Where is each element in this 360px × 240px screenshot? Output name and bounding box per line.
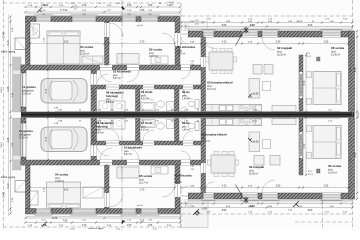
svg-text:5.70: 5.70 — [46, 88, 48, 93]
room label 10 kozlekedo bottom — [124, 146, 142, 157]
svg-text:térburkolt felület: térburkolt felület — [88, 227, 104, 230]
svg-text:8.55: 8.55 — [222, 25, 227, 27]
svg-text:15.45: 15.45 — [4, 191, 6, 197]
svg-text:13,71 m²: 13,71 m² — [201, 140, 210, 143]
door arc garage top — [97, 74, 109, 86]
door arc corridor room 04 top — [100, 70, 112, 82]
svg-text:87,5 212,5: 87,5 212,5 — [93, 91, 95, 100]
svg-text:vinyl: vinyl — [201, 138, 206, 140]
stacked window annotation entry top — [195, 20, 200, 25]
terrace door arc kitchen bottom — [203, 182, 214, 193]
toilet wc 09 bottom unit — [181, 119, 199, 131]
desk room 05 bottom unit — [151, 166, 168, 174]
svg-text:1.65: 1.65 — [148, 5, 153, 7]
svg-text:vinyl: vinyl — [277, 51, 282, 53]
svg-text:2,64 m²: 2,64 m² — [96, 132, 104, 135]
desk room 05 top unit — [151, 56, 168, 64]
svg-text:212,5: 212,5 — [306, 56, 312, 58]
entry porch top unit — [182, 22, 208, 32]
room label 11 garazs top — [22, 85, 36, 96]
room label 08 haztartasi top — [106, 91, 124, 105]
driveway apron left of garages — [13, 57, 22, 170]
utility corridor wall unit B (bottom) — [91, 141, 205, 145]
svg-text:13,20 m²: 13,20 m² — [80, 53, 89, 56]
svg-text:3.70: 3.70 — [140, 190, 145, 192]
svg-text:03 konyha-étkező: 03 konyha-étkező — [201, 133, 227, 137]
additional window dim texts bottom row2 — [42, 219, 153, 221]
svg-text:8.60: 8.60 — [308, 25, 313, 27]
vertical dimension garage bottom — [46, 117, 49, 162]
bed room 06 top unit — [307, 72, 342, 105]
room label 01 eloszoba top — [178, 45, 196, 56]
svg-text:2,87 m²: 2,87 m² — [174, 181, 182, 184]
svg-text:+2,70: +2,70 — [69, 3, 75, 5]
vertical dimension room 06 top — [304, 54, 307, 113]
washing machines utility 08 top unit — [99, 101, 125, 112]
room label 10 kozlekedo top — [113, 70, 131, 81]
svg-text:helyiség: helyiség — [96, 124, 108, 128]
svg-text:vinyl: vinyl — [55, 178, 60, 180]
svg-text:150: 150 — [107, 10, 110, 12]
additional window dim texts top row2 — [42, 10, 153, 12]
entry door arc top — [181, 37, 188, 44]
exterior right wall unit A (top) — [349, 31, 355, 112]
eaves gutter lines top right section — [188, 28, 353, 30]
svg-text:2,64 m²: 2,64 m² — [106, 101, 114, 104]
svg-text:3.10: 3.10 — [304, 80, 306, 85]
svg-text:±0.00: ±0.00 — [253, 141, 260, 144]
door arc eloszoba corridor top — [181, 70, 190, 79]
utility corridor wall unit A (top) — [91, 85, 205, 89]
wall nappali room 06 with pocket door unit A (top) — [299, 55, 303, 112]
svg-text:7.90: 7.90 — [63, 10, 68, 12]
car in garage bottom unit — [41, 127, 87, 152]
svg-text:4,20 m²: 4,20 m² — [141, 129, 149, 132]
svg-text:05 szoba: 05 szoba — [149, 48, 162, 52]
bed room 06 bottom unit — [307, 126, 342, 159]
door size annotation eloszoba top — [191, 61, 195, 66]
svg-text:01 előszoba: 01 előszoba — [178, 45, 196, 49]
dimension chain top edge windows left section — [24, 5, 181, 8]
svg-text:13,17 m²: 13,17 m² — [139, 182, 148, 185]
svg-text:3.10: 3.10 — [304, 143, 306, 148]
svg-text:3.70: 3.70 — [140, 42, 145, 44]
door arc corridor bath 07 top — [143, 89, 154, 100]
window nappali a unit B (bottom) — [241, 193, 260, 201]
svg-text:vinyl: vinyl — [178, 50, 183, 52]
svg-text:03 konyha-étkező: 03 konyha-étkező — [207, 81, 233, 85]
entry door arc bottom — [181, 186, 188, 193]
terrace door arc nappali top — [262, 37, 275, 50]
extra bottom edge annotation row left — [69, 228, 157, 230]
entry door opening unit A (top) — [181, 31, 188, 37]
wall bathroom 07-09 unit A (top) — [175, 89, 180, 112]
corner fixture room 04 bottom unit — [28, 191, 38, 205]
property dashed line right edge — [352, 0, 354, 230]
interior wall between rooms 04 and 05 unit B (bottom) — [105, 165, 110, 209]
roof overhang dashed line top left section — [3, 2, 181, 4]
wall eloszoba kitchen unit B (bottom) — [201, 118, 206, 193]
svg-text:90: 90 — [296, 21, 298, 23]
roof overhang dashed line bottom right section — [181, 213, 353, 215]
window room 05 b unit B (bottom) — [140, 209, 160, 216]
bed room 05 top unit — [117, 54, 139, 65]
desk room 04 bottom unit — [83, 187, 103, 198]
entry door opening unit B (bottom) — [181, 193, 188, 199]
outdoor ac unit top left — [1, 38, 26, 54]
door arc eloszoba room 05 bottom — [162, 184, 175, 197]
marker diamond bottom terrace — [193, 211, 199, 215]
svg-text:1.65: 1.65 — [148, 225, 153, 227]
svg-text:212,5: 212,5 — [308, 174, 314, 176]
svg-text:2.90: 2.90 — [276, 42, 281, 44]
svg-text:helyiség: helyiség — [106, 94, 118, 98]
north arrow bottom right — [293, 201, 299, 207]
room label 09 wc top — [182, 90, 190, 101]
vertical dimension garage top — [46, 69, 49, 113]
room label 05 szoba bottom — [139, 174, 152, 185]
svg-text:1.50: 1.50 — [127, 5, 132, 7]
sofa and armchairs nappali top unit — [249, 65, 273, 99]
room label 06 szoba bottom — [328, 164, 341, 175]
window kitchen terrace door unit A (top) — [202, 29, 216, 37]
vertical dimension room 06 bottom — [304, 117, 307, 177]
dimension chain top edge right section lower — [180, 25, 354, 28]
svg-text:vinyl: vinyl — [328, 169, 333, 171]
level mark -0.02 entry top — [236, 24, 256, 46]
room label 07 furdo top — [141, 90, 153, 101]
bathtub and basin bathroom 07 top unit — [141, 101, 174, 111]
door arc eloszoba room 05 top — [162, 33, 175, 46]
window room 05 b unit A (top) — [140, 15, 160, 22]
exterior garage left wall unit B (bottom) — [21, 118, 26, 165]
svg-text:-0.02: -0.02 — [249, 205, 255, 208]
tiny dimension row below party wall — [55, 118, 340, 122]
room label 02 nappali bottom — [249, 165, 264, 176]
svg-text:3.55: 3.55 — [324, 42, 329, 44]
dimension chain bottom edge windows left section — [24, 221, 181, 227]
svg-text:10,10: 10,10 — [1, 87, 3, 93]
wall bathroom 07-09 unit B (bottom) — [175, 118, 180, 141]
svg-text:1,40 m²: 1,40 m² — [182, 129, 190, 132]
svg-text:gres,: gres, — [96, 129, 101, 132]
room label 08 haztartasi bottom — [96, 121, 114, 135]
svg-text:3.55: 3.55 — [354, 152, 357, 157]
toilet wc 09 top unit — [181, 100, 199, 112]
svg-text:vinyl: vinyl — [207, 86, 212, 88]
pocket door annotation top — [306, 53, 320, 61]
sofa and armchairs nappali bottom unit — [249, 132, 280, 165]
dining table bottom unit — [207, 151, 239, 177]
door size annotation eloszoba bottom — [191, 166, 195, 171]
svg-text:10 közlekedő: 10 közlekedő — [124, 146, 142, 150]
svg-text:3.55: 3.55 — [324, 186, 329, 188]
eaves gutter lines bottom left section — [26, 215, 181, 217]
svg-text:5.70: 5.70 — [46, 136, 48, 141]
tv bench nappali bottom unit — [272, 119, 296, 125]
svg-text:vinyl: vinyl — [249, 170, 254, 172]
wall nappali room 06 with pocket door unit B (bottom) — [299, 118, 303, 175]
svg-text:7.05: 7.05 — [140, 10, 145, 12]
exterior garage left wall unit A (top) — [21, 65, 26, 112]
kitchen counter bottom unit — [206, 119, 262, 126]
svg-text:+2,70: +2,70 — [69, 228, 75, 230]
room label 03 konyha-etkezo top — [207, 81, 233, 92]
room label 02 nappali top — [277, 46, 292, 57]
roof overhang dashed step at entry top — [180, 3, 182, 16]
window room 06 unit A (top) — [321, 29, 343, 37]
exterior top wall left section unit B (bottom) — [26, 209, 181, 214]
svg-text:-0.10: -0.10 — [43, 4, 49, 7]
svg-text:vinyl: vinyl — [139, 179, 144, 181]
exterior left wall rooms unit A (top) — [26, 17, 31, 66]
stacked window annotation 2.0 top left — [72, 5, 80, 11]
interior dimension chain rooms top — [29, 42, 176, 45]
extra top edge annotation row left — [69, 2, 174, 7]
party wall between units — [21, 112, 355, 118]
exterior top wall left section unit A (top) — [26, 17, 181, 22]
svg-text:06 szoba: 06 szoba — [328, 164, 341, 168]
svg-text:01 előszoba: 01 előszoba — [174, 174, 192, 178]
wall eloszoba kitchen unit A (top) — [201, 37, 206, 112]
corner fixture room 04 top unit — [30, 24, 40, 38]
window kitchen terrace door unit B (bottom) — [202, 193, 216, 201]
interior wall rooms bottom band unit A (top) — [21, 65, 205, 70]
level mark -0.02 entry bottom — [194, 208, 207, 215]
door arc corridor room 05 top — [127, 70, 139, 82]
svg-text:7.90: 7.90 — [63, 220, 68, 222]
svg-text:05 szoba: 05 szoba — [139, 174, 152, 178]
window room 04 b unit B (bottom) — [71, 209, 98, 216]
dimension chain bottom edge overall left section — [24, 217, 181, 223]
svg-text:4.10: 4.10 — [222, 186, 227, 188]
interior dimension chain right section top — [180, 42, 350, 45]
door arc corridor room 05 bottom — [127, 148, 139, 160]
svg-text:gres,: gres, — [106, 98, 111, 101]
terrace door arc kitchen top — [203, 37, 214, 48]
washing machines utility 08 bottom unit — [99, 119, 125, 130]
svg-text:16,35 m²: 16,35 m² — [249, 173, 258, 176]
terrace door nappali unit A (top) — [261, 29, 280, 37]
car in garage top unit — [41, 79, 87, 104]
room label 11 garazs bottom — [19, 129, 33, 140]
terrace bottom unit — [181, 199, 209, 228]
dimension chain top edge overall left section — [24, 10, 181, 13]
wall utility 08-07 unit A (top) — [136, 89, 141, 112]
level mark -0.02 kitchen door bottom — [236, 185, 256, 208]
kitchen counter top unit — [206, 105, 262, 112]
svg-text:02 nappali: 02 nappali — [249, 165, 264, 169]
svg-text:7.05: 7.05 — [140, 220, 145, 222]
dimension chain bottom edge right section upper — [180, 202, 354, 207]
door arc eloszoba corridor bottom — [181, 151, 190, 160]
svg-text:2.40: 2.40 — [82, 5, 87, 7]
svg-text:pm 90: pm 90 — [137, 25, 144, 27]
svg-text:-0.70: -0.70 — [52, 217, 58, 220]
svg-text:3.55: 3.55 — [354, 67, 357, 72]
svg-text:1.50: 1.50 — [127, 225, 132, 227]
interior dimension chain right section bottom — [180, 186, 350, 189]
roof overhang dashed line bottom left section — [3, 226, 181, 228]
roof overhang dashed step at entry bottom — [180, 214, 182, 227]
level mark kitchen bottom — [248, 138, 259, 144]
svg-text:13,71 m²: 13,71 m² — [207, 88, 216, 91]
door arc room 04-05 bottom — [109, 193, 123, 207]
svg-text:mélygarázs: mélygarázs — [19, 133, 32, 136]
svg-text:16,35 m²: 16,35 m² — [277, 54, 286, 57]
door arc corridor wc top — [183, 89, 193, 99]
window room 04 a unit B (bottom) — [35, 209, 53, 216]
door arc room 04-05 top — [109, 23, 123, 37]
svg-text:1,40 m²: 1,40 m² — [182, 98, 190, 101]
outdoor ac unit bottom left — [1, 176, 26, 192]
svg-text:vinyl: vinyl — [331, 51, 336, 53]
svg-text:mélygarázs: mélygarázs — [22, 89, 35, 92]
exterior right wall unit B (bottom) — [349, 118, 355, 199]
svg-text:07 fürdő: 07 fürdő — [141, 90, 153, 94]
double bed room 04 bottom unit — [47, 182, 81, 209]
svg-text:4.10: 4.10 — [222, 42, 227, 44]
garage right wall unit B (bottom) — [91, 118, 97, 160]
window room 05 a unit A (top) — [121, 15, 138, 22]
bed room 05 bottom unit — [117, 167, 139, 178]
svg-text:vinyl: vinyl — [80, 50, 85, 52]
svg-text:4,20 m²: 4,20 m² — [141, 98, 149, 101]
svg-text:vinyl: vinyl — [174, 179, 179, 181]
window size labels top left section — [42, 14, 153, 16]
vertical dimension chain far left — [4, 31, 6, 197]
tv bench nappali top unit — [272, 106, 296, 112]
svg-text:87,5 212,5: 87,5 212,5 — [93, 132, 95, 141]
svg-text:5.00: 5.00 — [64, 190, 69, 192]
svg-text:8.60: 8.60 — [308, 210, 313, 212]
svg-text:13,42 m²: 13,42 m² — [328, 172, 337, 175]
svg-text:11 garázs: 11 garázs — [19, 129, 33, 133]
exterior top wall right section unit A (top) — [188, 31, 353, 37]
svg-text:pm 90: pm 90 — [137, 205, 144, 207]
interior dimension chain rooms bottom — [29, 186, 176, 191]
terrace door nappali unit B (bottom) — [261, 193, 280, 201]
svg-text:2,87 m²: 2,87 m² — [178, 53, 186, 56]
garage right wall unit A (top) — [91, 70, 97, 112]
svg-text:13,20 m²: 13,20 m² — [55, 180, 64, 183]
property dashed line left edge — [3, 0, 5, 230]
svg-text:15.45: 15.45 — [4, 31, 6, 37]
level mark -0.70 bottom left — [42, 217, 58, 227]
room label 01 eloszoba bottom — [174, 174, 192, 185]
eaves gutter lines bottom right section — [188, 200, 353, 202]
vertical dimension chain left edge — [7, 15, 12, 214]
svg-text:02 nappali: 02 nappali — [277, 46, 292, 50]
extra top edge annotation row right section — [207, 18, 348, 23]
svg-text:-0.02: -0.02 — [249, 24, 255, 27]
room label 04 szoba top — [80, 45, 93, 56]
section line A-A vertical — [122, 0, 126, 230]
svg-text:8.55: 8.55 — [222, 210, 227, 212]
svg-text:45: 45 — [312, 21, 314, 23]
door arc corridor utility 08 bottom — [106, 128, 119, 141]
terrace dashed edge bottom right — [295, 199, 353, 230]
tiny dimension row above party wall — [55, 110, 340, 112]
double bed room 04 top unit — [47, 31, 80, 64]
svg-text:2.90: 2.90 — [276, 186, 281, 188]
window size labels under sills top left — [60, 10, 111, 12]
exterior top wall right section unit B (bottom) — [188, 193, 353, 199]
room label 03 konyha-etkezo bottom — [201, 133, 227, 144]
room label 09 wc bottom — [182, 121, 190, 132]
door arc corridor wc bottom — [183, 131, 193, 141]
dimension chain bottom edge right section lower — [180, 206, 354, 211]
room label 04 szoba bottom — [55, 173, 68, 184]
door arc corridor utility 08 top — [106, 89, 119, 102]
svg-text:06 szoba: 06 szoba — [331, 46, 344, 50]
svg-text:13,55 m²: 13,55 m² — [19, 137, 28, 140]
vertical dimension chain right edge — [354, 30, 358, 200]
svg-text:10,10: 10,10 — [1, 142, 3, 148]
terrace door arc nappali bottom — [262, 180, 275, 193]
window room 04 a unit A (top) — [35, 15, 53, 22]
door arc garage bottom — [97, 144, 109, 156]
window room 05 a unit B (bottom) — [121, 209, 138, 216]
exterior left wall rooms unit B (bottom) — [26, 165, 31, 214]
room label 07 furdo bottom — [141, 121, 153, 132]
svg-text:04 szoba: 04 szoba — [80, 45, 93, 49]
window room 06 unit B (bottom) — [321, 193, 343, 201]
svg-text:vinyl: vinyl — [149, 53, 154, 55]
svg-text:11 garázs: 11 garázs — [22, 85, 36, 89]
svg-text:90: 90 — [60, 10, 62, 12]
svg-text:10 közlekedő: 10 közlekedő — [113, 70, 131, 74]
svg-text:09 wc: 09 wc — [182, 90, 190, 94]
dimension chain top edge right section upper — [180, 21, 354, 24]
wardrobe room 04 top unit — [82, 56, 103, 64]
svg-text:13,55 m²: 13,55 m² — [22, 93, 31, 96]
svg-text:620,5: 620,5 — [168, 2, 174, 4]
level mark kitchen top — [248, 93, 259, 98]
interior wall room 05 eloszoba unit B (bottom) — [175, 165, 180, 214]
svg-text:13,17 m²: 13,17 m² — [149, 55, 158, 58]
room label 06 szoba top — [331, 46, 344, 57]
window nappali a unit A (top) — [241, 29, 260, 37]
left edge vertical texts extra — [1, 27, 14, 202]
interior wall rooms bottom band unit B (bottom) — [21, 160, 205, 165]
extra bottom edge annotation row right section — [207, 210, 348, 214]
svg-text:5.00: 5.00 — [64, 42, 69, 44]
interior wall room 05 eloszoba unit A (top) — [175, 17, 180, 66]
svg-text:13,42 m²: 13,42 m² — [331, 54, 340, 57]
svg-text:5,07 m²: 5,07 m² — [113, 77, 121, 80]
wall utility 08-07 unit B (bottom) — [136, 118, 141, 141]
room label 05 szoba top — [149, 48, 162, 59]
roof overhang dashed line top right section — [181, 15, 353, 17]
svg-text:5,07 m²: 5,07 m² — [124, 153, 132, 156]
pocket door annotation bottom — [308, 169, 320, 176]
eaves gutter lines top left section — [26, 13, 181, 15]
right edge vertical texts extra — [350, 67, 360, 162]
window room 04 b unit A (top) — [71, 15, 98, 22]
left boundary double line — [7, 14, 9, 216]
svg-text:±0.00: ±0.00 — [253, 93, 260, 96]
bathtub and basin bathroom 07 bottom unit — [141, 120, 174, 130]
dining table top unit — [205, 48, 237, 74]
svg-text:04 szoba: 04 szoba — [55, 173, 68, 177]
door arc corridor bath 07 bottom — [143, 130, 154, 141]
svg-text:2.40: 2.40 — [82, 225, 87, 227]
door arc corridor room 04 bottom — [100, 148, 112, 160]
interior wall between rooms 04 and 05 unit A (top) — [105, 22, 110, 66]
svg-text:-0.05: -0.05 — [201, 208, 207, 211]
level mark -0.10 top left — [37, 4, 49, 12]
